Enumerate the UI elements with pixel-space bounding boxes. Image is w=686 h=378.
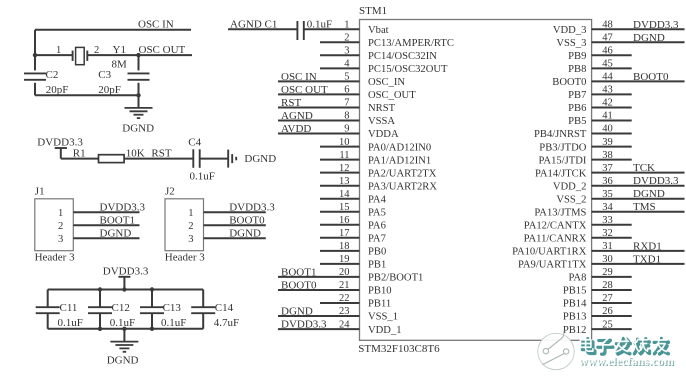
svg-text:DVDD3.3: DVDD3.3 [229,202,275,214]
svg-text:C1: C1 [265,18,278,30]
svg-text:1: 1 [58,208,63,219]
svg-text:AGND: AGND [230,18,262,30]
svg-text:15: 15 [339,202,350,213]
svg-text:VSS_2: VSS_2 [556,194,586,205]
svg-text:9: 9 [344,124,349,135]
svg-text:2: 2 [188,221,193,232]
svg-text:PB4/JNRST: PB4/JNRST [534,129,587,140]
svg-text:OSC OUT: OSC OUT [281,84,328,96]
svg-text:5: 5 [344,72,349,83]
svg-text:2: 2 [58,221,63,232]
svg-text:AGND: AGND [281,110,313,122]
svg-text:DVDD3.3: DVDD3.3 [633,175,679,187]
svg-text:2: 2 [94,45,99,56]
svg-text:PA0/AD12IN0: PA0/AD12IN0 [368,142,431,153]
svg-text:OSC OUT: OSC OUT [139,44,186,56]
svg-text:TCK: TCK [633,162,655,174]
svg-text:44: 44 [602,72,613,83]
svg-text:Vbat: Vbat [368,25,389,36]
svg-text:C14: C14 [215,302,234,314]
svg-text:Header 3: Header 3 [165,252,206,264]
svg-text:DGND: DGND [229,228,261,240]
svg-text:VDD_1: VDD_1 [368,325,402,336]
svg-text:33: 33 [602,215,613,226]
svg-text:38: 38 [602,150,613,161]
svg-text:DGND: DGND [107,354,139,366]
svg-text:VSS_1: VSS_1 [368,312,398,323]
svg-text:OSC_IN: OSC_IN [368,77,405,88]
svg-text:45: 45 [602,59,613,70]
svg-text:RST: RST [281,97,301,109]
svg-text:23: 23 [339,306,350,317]
svg-text:8: 8 [344,111,349,122]
svg-text:PA5: PA5 [368,207,386,218]
svg-text:PC13/AMPER/RTC: PC13/AMPER/RTC [368,38,454,49]
svg-text:48: 48 [602,20,613,31]
svg-text:16: 16 [339,215,350,226]
svg-text:STM1: STM1 [359,5,387,17]
svg-text:RST: RST [151,147,171,159]
svg-text:PB12: PB12 [563,325,587,336]
svg-text:30: 30 [602,254,613,265]
svg-text:C2: C2 [46,69,59,81]
svg-text:17: 17 [339,228,350,239]
svg-text:BOOT0: BOOT0 [633,71,669,83]
svg-text:BOOT0: BOOT0 [281,280,317,292]
svg-text:J1: J1 [35,186,45,198]
svg-text:32: 32 [602,228,613,239]
svg-text:6: 6 [344,85,349,96]
svg-text:PA8: PA8 [569,273,587,284]
svg-text:20pF: 20pF [46,84,69,96]
svg-text:14: 14 [339,189,350,200]
svg-text:PB15: PB15 [563,286,587,297]
svg-text:PB8: PB8 [568,64,586,75]
svg-text:C4: C4 [188,137,201,149]
svg-text:PA6: PA6 [368,221,386,232]
svg-text:R1: R1 [73,147,86,159]
svg-text:PA3/UART2RX: PA3/UART2RX [368,181,437,192]
svg-text:AVDD: AVDD [281,123,311,135]
svg-text:OSC IN: OSC IN [138,19,174,31]
svg-text:8M: 8M [112,58,128,70]
svg-text:PB3/JTDO: PB3/JTDO [539,142,586,153]
svg-text:PC14/OSC32IN: PC14/OSC32IN [368,51,437,62]
svg-text:PA1/AD12IN1: PA1/AD12IN1 [368,155,431,166]
svg-text:C13: C13 [163,302,182,314]
svg-text:VSS_3: VSS_3 [556,38,586,49]
svg-text:DVDD3.3: DVDD3.3 [281,319,327,331]
svg-text:www.elecfans.com: www.elecfans.com [579,354,674,368]
svg-text:PA9/UART1TX: PA9/UART1TX [518,260,587,271]
svg-text:41: 41 [602,111,613,122]
svg-text:11: 11 [339,150,349,161]
svg-text:31: 31 [602,241,613,252]
svg-text:PB9: PB9 [568,51,586,62]
svg-text:12: 12 [339,163,350,174]
svg-text:C12: C12 [112,302,130,314]
svg-text:PB10: PB10 [368,286,392,297]
svg-text:PB6: PB6 [568,103,586,114]
svg-text:3: 3 [188,234,193,245]
svg-text:39: 39 [602,137,613,148]
svg-text:0.1uF: 0.1uF [307,18,332,30]
svg-text:PA2/UART2TX: PA2/UART2TX [368,168,437,179]
svg-text:PC15/OSC32OUT: PC15/OSC32OUT [368,64,448,75]
svg-text:13: 13 [339,176,350,187]
svg-text:Y1: Y1 [113,44,126,56]
svg-text:DVDD3.3: DVDD3.3 [103,265,149,277]
svg-text:OSC IN: OSC IN [281,71,317,83]
svg-text:PA10/UART1RX: PA10/UART1RX [512,247,587,258]
svg-text:C11: C11 [60,302,78,314]
svg-text:BOOT1: BOOT1 [100,215,135,227]
svg-text:STM32F103C8T6: STM32F103C8T6 [358,343,440,355]
svg-text:DGND: DGND [281,306,313,318]
svg-text:VDD_3: VDD_3 [553,25,587,36]
svg-text:43: 43 [602,85,613,96]
svg-text:RXD1: RXD1 [633,240,662,252]
svg-text:VDDA: VDDA [368,129,399,140]
svg-text:1: 1 [188,208,193,219]
svg-text:J2: J2 [165,186,175,198]
svg-text:PB0: PB0 [368,247,386,258]
svg-text:PA13/JTMS: PA13/JTMS [534,207,586,218]
svg-text:4.7uF: 4.7uF [214,317,239,329]
svg-text:47: 47 [602,33,613,44]
svg-text:19: 19 [339,254,350,265]
svg-text:29: 29 [602,267,613,278]
svg-text:DGND: DGND [244,153,276,165]
svg-text:DGND: DGND [122,123,154,135]
svg-text:C3: C3 [98,69,111,81]
svg-text:2: 2 [344,33,349,44]
svg-text:BOOT1: BOOT1 [281,266,316,278]
svg-text:PB5: PB5 [568,116,586,127]
svg-text:TXD1: TXD1 [633,253,661,265]
svg-text:0.1uF: 0.1uF [190,171,215,183]
svg-text:40: 40 [602,124,613,135]
svg-text:25: 25 [602,319,613,330]
svg-text:PA7: PA7 [368,234,386,245]
svg-text:DGND: DGND [633,32,665,44]
svg-text:0.1uF: 0.1uF [161,317,186,329]
svg-text:PB11: PB11 [368,299,391,310]
svg-text:3: 3 [344,46,349,57]
svg-text:PB7: PB7 [568,90,586,101]
svg-text:TMS: TMS [633,201,656,213]
svg-text:34: 34 [602,202,613,213]
svg-text:PA14/JTCK: PA14/JTCK [535,168,587,179]
svg-text:20pF: 20pF [98,84,121,96]
svg-text:PB13: PB13 [563,312,587,323]
svg-text:27: 27 [602,293,613,304]
svg-text:10: 10 [339,137,350,148]
svg-text:0.1uF: 0.1uF [58,317,83,329]
svg-text:46: 46 [602,46,613,57]
svg-text:PA15/JTDI: PA15/JTDI [539,155,587,166]
svg-text:20: 20 [339,267,350,278]
svg-text:PB1: PB1 [368,260,386,271]
svg-text:DGND: DGND [100,228,132,240]
svg-text:1: 1 [56,45,61,56]
svg-text:PB14: PB14 [563,299,587,310]
svg-text:DVDD3.3: DVDD3.3 [100,202,146,214]
svg-text:NRST: NRST [368,103,396,114]
svg-text:4: 4 [344,59,350,70]
svg-text:VDD_2: VDD_2 [553,181,587,192]
svg-text:Header 3: Header 3 [35,252,76,264]
svg-text:26: 26 [602,306,613,317]
svg-text:37: 37 [602,163,613,174]
svg-text:28: 28 [602,280,613,291]
svg-text:PB2/BOOT1: PB2/BOOT1 [368,273,423,284]
svg-text:VSSA: VSSA [368,116,395,127]
svg-text:OSC_OUT: OSC_OUT [368,90,416,101]
svg-text:DVDD3.3: DVDD3.3 [633,19,679,31]
svg-text:36: 36 [602,176,613,187]
svg-text:BOOT0: BOOT0 [229,215,265,227]
svg-text:DGND: DGND [633,188,665,200]
svg-text:BOOT0: BOOT0 [552,77,586,88]
svg-text:7: 7 [344,98,349,109]
svg-text:0.1uF: 0.1uF [110,317,135,329]
svg-text:22: 22 [339,293,350,304]
svg-text:21: 21 [339,280,350,291]
svg-text:35: 35 [602,189,613,200]
svg-text:42: 42 [602,98,613,109]
svg-text:PA4: PA4 [368,194,387,205]
svg-text:PA11/CANRX: PA11/CANRX [524,234,587,245]
svg-text:24: 24 [339,319,350,330]
svg-text:3: 3 [58,234,63,245]
svg-text:10K: 10K [126,147,145,159]
svg-text:PA12/CANTX: PA12/CANTX [524,221,587,232]
svg-text:18: 18 [339,241,350,252]
